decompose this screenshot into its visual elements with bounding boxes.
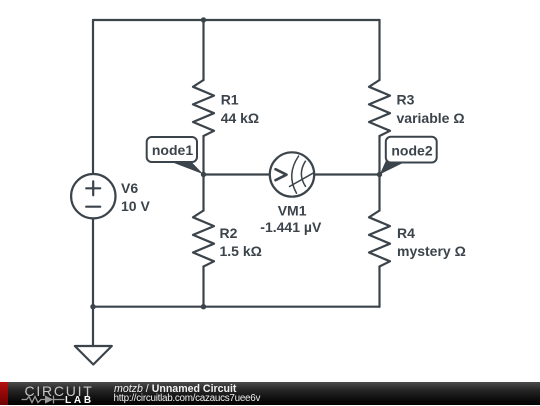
wire right branch bottom (378, 267, 380, 307)
svg-text:44 kΩ: 44 kΩ (221, 110, 259, 126)
node1 flag tail (168, 161, 204, 175)
svg-text:R3: R3 (397, 92, 415, 108)
voltmeter arrow glyph (276, 169, 287, 180)
svg-text:node1: node1 (152, 142, 193, 158)
resistor R3 (369, 80, 390, 136)
ground (75, 346, 112, 365)
voltmeter gauge arc 2 (301, 161, 305, 186)
svg-text:variable Ω: variable Ω (397, 110, 465, 126)
node1 flag box (147, 137, 197, 162)
wire top rail (93, 19, 380, 21)
wire middle branch mid (202, 136, 204, 211)
wire ground stem (92, 307, 94, 346)
svg-text:R2: R2 (220, 225, 238, 241)
wire voltmeter to node2 (314, 173, 379, 175)
logo word LAB (65, 395, 94, 406)
wire bottom rail (93, 306, 380, 308)
voltmeter needle (290, 173, 314, 186)
junction dot node1 (201, 172, 206, 177)
footer url line (114, 393, 261, 404)
resistor R4 (369, 211, 390, 267)
junction dot bottom middle (201, 304, 206, 309)
svg-text:mystery Ω: mystery Ω (397, 243, 466, 259)
resistor R1 (193, 80, 214, 136)
logo schematic glyph (20, 394, 66, 405)
node2 flag tail (380, 161, 408, 175)
junction dot bottom left (90, 304, 95, 309)
voltage source V6 (71, 174, 115, 218)
node2 flag box (386, 137, 437, 163)
footer red stripe (0, 382, 8, 405)
junction dot node2 (377, 172, 382, 177)
voltmeter VM1 (270, 152, 314, 196)
wire left rail upper (92, 20, 94, 174)
footer title line (114, 383, 236, 395)
wire middle branch top (202, 20, 204, 80)
logo word CIRCUIT (25, 383, 105, 399)
svg-text:1.5 kΩ: 1.5 kΩ (220, 243, 262, 259)
wire right branch mid (378, 136, 380, 211)
svg-text:V6: V6 (121, 180, 138, 196)
svg-text:10 V: 10 V (121, 198, 150, 214)
svg-text:node2: node2 (391, 142, 432, 158)
junction dot top (201, 17, 206, 22)
svg-text:R4: R4 (397, 225, 415, 241)
wire middle branch bottom (202, 267, 204, 307)
svg-text:-1.441 µV: -1.441 µV (260, 219, 322, 235)
voltmeter gauge arc 1 (292, 156, 299, 193)
svg-text:VM1: VM1 (278, 203, 307, 219)
footer bar (0, 382, 540, 405)
svg-text:R1: R1 (221, 92, 239, 108)
wire right branch top (378, 20, 380, 80)
wire left rail lower (92, 218, 94, 306)
wire node1 to voltmeter (204, 173, 270, 175)
resistor R2 (193, 211, 214, 267)
